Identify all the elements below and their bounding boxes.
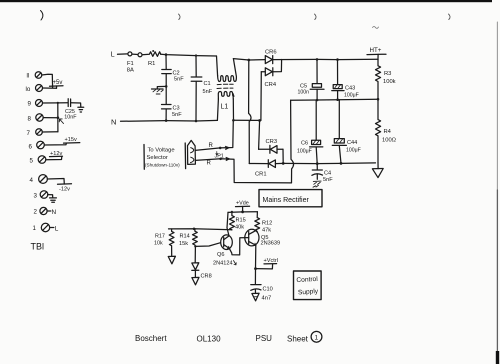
wire R14 down to CR8 bbox=[194, 246, 196, 262]
svg-text:8: 8 bbox=[28, 115, 32, 122]
chassis ground at C4 bbox=[313, 181, 321, 187]
wire mid rail left drop with hop bbox=[291, 100, 294, 182]
node C6/C4 on neg rail bbox=[316, 162, 319, 165]
svg-text:CR6: CR6 bbox=[265, 50, 277, 56]
wire to C3 bbox=[165, 86, 167, 104]
wire Q5 emitter down bbox=[254, 245, 256, 284]
capacitor C3 bbox=[162, 105, 183, 119]
svg-text:5nF: 5nF bbox=[323, 177, 333, 183]
transistor Q6 bbox=[213, 235, 236, 267]
terminal TB1-2 bbox=[40, 207, 47, 214]
svg-text:F1: F1 bbox=[127, 61, 134, 67]
svg-text:L: L bbox=[55, 225, 59, 232]
capacitor C25 bbox=[64, 99, 77, 121]
svg-text:C6: C6 bbox=[301, 141, 308, 147]
svg-text:C43: C43 bbox=[345, 86, 355, 92]
svg-text:+Vde: +Vde bbox=[236, 201, 249, 207]
node C43 top tap bbox=[336, 58, 339, 61]
svg-text:CR8: CR8 bbox=[201, 274, 212, 280]
diode CR8 bbox=[192, 263, 212, 280]
arrowhead on R lower bbox=[226, 157, 230, 160]
svg-text:Control: Control bbox=[296, 276, 318, 284]
wire L1 output horizontal bbox=[234, 119, 261, 121]
wire T9 to C25 bbox=[43, 102, 68, 104]
ground at C10 bbox=[252, 293, 259, 301]
terminal TB1-10 bbox=[36, 85, 43, 92]
wire T6 to +15V bbox=[44, 143, 66, 145]
svg-text:C4: C4 bbox=[324, 171, 331, 177]
wire CR6 to HT+ bbox=[273, 58, 378, 60]
node C1/N junction bbox=[195, 120, 198, 123]
node N mains input bbox=[111, 118, 166, 127]
fuse F1 bbox=[127, 52, 142, 74]
wire C2 drop bbox=[165, 55, 167, 70]
wire HT string vertical with hop bbox=[249, 60, 251, 164]
svg-text:Selector: Selector bbox=[147, 155, 168, 161]
svg-text:+15v: +15v bbox=[65, 137, 77, 143]
svg-text:1: 1 bbox=[315, 335, 319, 342]
node CR4/CR3 junction bbox=[258, 119, 261, 122]
wire T11 to +5V bbox=[42, 74, 53, 87]
svg-text:Sheet: Sheet bbox=[287, 335, 309, 344]
svg-text:5: 5 bbox=[30, 158, 34, 165]
box Control Supply bbox=[294, 271, 322, 300]
svg-text:CR1: CR1 bbox=[255, 172, 267, 178]
capacitor C6 bbox=[297, 100, 323, 164]
node on R lower bbox=[219, 158, 222, 161]
connector pin 2 bbox=[191, 157, 194, 162]
resistor R1 bbox=[142, 50, 161, 67]
L1 core dashes bbox=[217, 84, 233, 88]
node Vctrl tap bbox=[254, 267, 257, 270]
node R15 top bbox=[231, 211, 233, 213]
wire C1 lower bbox=[195, 82, 197, 122]
terminal TB1-4 bbox=[39, 175, 48, 184]
wire T4 to -12V bbox=[47, 179, 64, 185]
svg-text:100μF: 100μF bbox=[344, 93, 359, 99]
svg-text:+5v: +5v bbox=[53, 80, 63, 86]
svg-text:HT+: HT+ bbox=[370, 47, 382, 54]
svg-text:3: 3 bbox=[34, 192, 38, 199]
wire base bias rail bbox=[169, 229, 232, 230]
svg-text:Supply: Supply bbox=[298, 288, 319, 296]
wire C1 upper bbox=[195, 56, 197, 77]
node C44 on neg rail bbox=[340, 162, 343, 165]
chassis ground at C25 bbox=[78, 107, 84, 112]
svg-text:To Voltage: To Voltage bbox=[148, 148, 175, 154]
wire C2 to C3 bbox=[165, 74, 167, 87]
svg-text:2: 2 bbox=[34, 209, 38, 216]
svg-text:R14: R14 bbox=[180, 234, 190, 240]
scan edge top bar bbox=[0, 0, 492, 2]
svg-text:+Vctrl: +Vctrl bbox=[264, 258, 278, 264]
svg-text:lo: lo bbox=[26, 86, 31, 93]
wire L1 lower right leg down bbox=[232, 99, 234, 120]
wire CR4 cathode up to HT rail bbox=[273, 60, 282, 72]
svg-text:100Ω: 100Ω bbox=[382, 138, 397, 144]
svg-text:100k: 100k bbox=[383, 79, 396, 85]
title Sheet 1 bbox=[287, 331, 322, 343]
svg-text:L1: L1 bbox=[221, 104, 229, 111]
svg-text:100μF: 100μF bbox=[346, 148, 361, 154]
wire T10 bbox=[43, 87, 57, 89]
svg-text:10nF: 10nF bbox=[64, 115, 77, 121]
node on R upper bbox=[219, 147, 222, 150]
capacitor C4 bbox=[312, 164, 333, 183]
terminal TB1-7 bbox=[36, 129, 43, 136]
wire T8 bbox=[43, 117, 58, 119]
svg-text:Mains Rectifier: Mains Rectifier bbox=[263, 197, 310, 204]
page curl mark 1 bbox=[41, 11, 43, 21]
diode CR6 bbox=[265, 50, 277, 64]
svg-text:R: R bbox=[209, 143, 214, 149]
svg-text:4n7: 4n7 bbox=[262, 296, 272, 302]
wire C3 to N line bbox=[165, 109, 167, 120]
svg-text:100μF: 100μF bbox=[297, 149, 312, 155]
svg-text:N: N bbox=[52, 209, 57, 216]
svg-text:9: 9 bbox=[28, 101, 32, 108]
connector pin 1 bbox=[190, 148, 193, 153]
scan edge bottom-right bar bbox=[496, 351, 499, 364]
ground at T3 bbox=[48, 195, 57, 203]
transistor Q5 bbox=[245, 229, 280, 246]
svg-text:C44: C44 bbox=[347, 140, 357, 146]
node L mains input bbox=[111, 52, 128, 59]
svg-text:R: R bbox=[207, 161, 212, 167]
wire top into L1 bbox=[217, 56, 218, 76]
wire N line to L1 bbox=[166, 119, 217, 122]
capacitor C1 bbox=[191, 77, 213, 95]
terminal TB1-3 bbox=[40, 191, 48, 199]
box Mains Rectifier bbox=[259, 186, 322, 207]
node L1 out junction bbox=[232, 119, 235, 122]
node CR3/neg rail bbox=[282, 162, 285, 165]
terminal TB1-6 bbox=[37, 141, 45, 149]
resistor R12 bbox=[255, 212, 272, 234]
terminal TB1-9 bbox=[36, 100, 43, 107]
terminal TB1-5 bbox=[38, 156, 46, 164]
wire L1 lower left leg to N bbox=[217, 99, 218, 120]
resistor R3 bbox=[376, 59, 396, 99]
terminal TB1-8 bbox=[36, 114, 43, 121]
capacitor C2 bbox=[162, 70, 184, 83]
node L at T1 bbox=[50, 225, 59, 232]
wire mid rail bbox=[291, 99, 378, 100]
wire Q6 emitter to Q5 base bbox=[229, 238, 248, 255]
node +Vde rail tap bbox=[241, 211, 244, 214]
node N at T2 bbox=[47, 209, 57, 216]
svg-text:10k: 10k bbox=[154, 241, 163, 247]
node R14 top bbox=[193, 228, 196, 231]
svg-text:R12: R12 bbox=[262, 221, 272, 227]
svg-text:5nF: 5nF bbox=[174, 77, 184, 83]
rail +Vde bbox=[236, 201, 250, 212]
wire Q6 collector bbox=[227, 212, 229, 236]
-12V rail bbox=[58, 184, 72, 193]
svg-text:PSU: PSU bbox=[256, 334, 273, 343]
node HT rail / CR1 string junction bbox=[247, 59, 250, 62]
inductor L1 upper winding bbox=[218, 59, 237, 82]
node R14/base junction bbox=[194, 245, 196, 247]
ground at C2/C3 bbox=[152, 86, 167, 94]
wire negative rail bbox=[283, 162, 375, 165]
node T9/T8 junction bbox=[57, 102, 59, 104]
svg-text:6: 6 bbox=[29, 144, 33, 151]
scan edge right line bbox=[496, 22, 498, 190]
svg-text:4: 4 bbox=[30, 177, 34, 184]
svg-text:15k: 15k bbox=[179, 241, 188, 247]
node C5 mid rail bbox=[316, 99, 319, 102]
wire T7 bbox=[42, 131, 58, 133]
node T8 junction bbox=[57, 116, 60, 119]
arrowhead on R upper bbox=[225, 146, 229, 150]
wire T9-T7 vertical bbox=[57, 103, 59, 132]
node ground tap bbox=[165, 85, 168, 88]
ground at CR8 bbox=[192, 277, 199, 284]
node R3/R4 mid rail bbox=[377, 98, 380, 101]
svg-text:C1: C1 bbox=[204, 81, 211, 87]
capacitor C5 bbox=[298, 59, 325, 100]
stray squiggle bbox=[373, 27, 379, 29]
svg-text:7: 7 bbox=[27, 130, 31, 137]
+12V rail bbox=[50, 151, 63, 157]
svg-text:47k: 47k bbox=[262, 228, 271, 234]
svg-text:R1: R1 bbox=[148, 61, 155, 67]
wire CR3 down to neg rail bbox=[282, 149, 284, 163]
svg-text:TBl: TBl bbox=[31, 242, 45, 252]
svg-text:8A: 8A bbox=[127, 67, 134, 73]
wire L1 to CR6 bbox=[233, 59, 264, 60]
svg-text:-12v: -12v bbox=[59, 187, 70, 193]
rail +Vctrl bbox=[256, 258, 278, 269]
svg-text:C3: C3 bbox=[173, 106, 180, 112]
page curl mark 4 bbox=[449, 14, 451, 20]
svg-text:ll: ll bbox=[27, 73, 30, 80]
terminal number labels bbox=[26, 73, 38, 232]
node C1 top tap bbox=[195, 54, 197, 56]
resistor R4 bbox=[376, 99, 397, 162]
node C2 tap bbox=[165, 53, 168, 56]
label JP1 bbox=[215, 152, 224, 160]
capacitor C44 bbox=[332, 100, 361, 164]
capacitor C43 bbox=[332, 60, 359, 100]
svg-text:R17: R17 bbox=[155, 234, 165, 240]
resistor R17 bbox=[154, 229, 174, 256]
svg-text:2N3639: 2N3639 bbox=[261, 241, 281, 247]
terminal TB1-1 bbox=[41, 223, 49, 231]
wire junction down to CR3 bbox=[259, 121, 260, 150]
svg-text:1: 1 bbox=[33, 225, 37, 232]
terminal HT+ bbox=[367, 47, 386, 59]
svg-text:5nF: 5nF bbox=[172, 112, 182, 118]
svg-text:OL130: OL130 bbox=[197, 335, 222, 344]
svg-text:L: L bbox=[111, 52, 115, 59]
+15V rail bbox=[64, 137, 80, 143]
wire R lower bbox=[195, 159, 291, 183]
svg-text:R4: R4 bbox=[384, 129, 392, 135]
svg-text:+12v: +12v bbox=[50, 151, 62, 157]
+5V rail bbox=[50, 80, 64, 88]
svg-text:R15: R15 bbox=[236, 218, 246, 224]
svg-text:40k: 40k bbox=[235, 225, 244, 231]
resistor R14 bbox=[179, 229, 197, 247]
node C5 top tap bbox=[316, 58, 319, 61]
diode CR1 bbox=[249, 160, 283, 178]
wire Q6 base bbox=[195, 243, 220, 247]
junction arrow mark bbox=[59, 119, 63, 124]
resistor R15 bbox=[230, 212, 246, 231]
svg-text:R3: R3 bbox=[384, 71, 391, 77]
wire collector rail bbox=[228, 211, 257, 214]
svg-text:100n: 100n bbox=[298, 90, 310, 96]
wire mains top bbox=[161, 54, 217, 56]
wire T5 to +12V bbox=[46, 157, 62, 160]
wire CR4 anode down bbox=[260, 72, 262, 121]
ground main bbox=[372, 162, 383, 177]
wire C25 to ground bbox=[71, 103, 81, 107]
svg-text:Boschert: Boschert bbox=[135, 334, 167, 343]
svg-text:N: N bbox=[111, 118, 116, 127]
diode CR4 bbox=[261, 68, 277, 88]
node C3/N junction bbox=[165, 119, 168, 122]
page curl mark 2 bbox=[179, 14, 181, 20]
svg-text:C10: C10 bbox=[263, 287, 273, 293]
terminal TB1-11 bbox=[35, 72, 42, 79]
svg-text:Q6: Q6 bbox=[217, 252, 224, 258]
note To Voltage Selector bbox=[144, 143, 186, 169]
node C43 mid rail bbox=[336, 98, 339, 101]
svg-text:CR3: CR3 bbox=[266, 139, 278, 145]
wire R upper bbox=[195, 120, 233, 150]
svg-text:(Shutdown-110v): (Shutdown-110v) bbox=[145, 163, 180, 168]
svg-text:2N4124: 2N4124 bbox=[213, 261, 233, 267]
connector JP1 shell bbox=[188, 140, 196, 164]
svg-text:5nF: 5nF bbox=[203, 89, 213, 95]
diode CR3 bbox=[259, 139, 283, 153]
inductor L1 lower winding bbox=[218, 92, 234, 100]
page curl mark 3 bbox=[315, 14, 317, 20]
ground at R17 bbox=[168, 256, 175, 264]
capacitor C10 bbox=[251, 285, 273, 302]
svg-text:CR4: CR4 bbox=[265, 82, 277, 88]
